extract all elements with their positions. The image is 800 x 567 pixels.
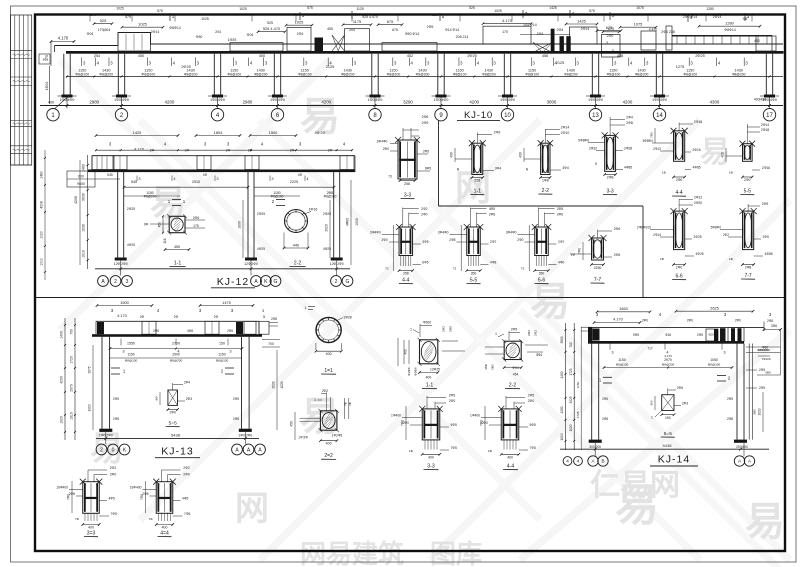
svg-text:Φ8@100: Φ8@100 (525, 72, 539, 76)
svg-text:12Φ25: 12Φ25 (430, 368, 440, 372)
svg-text:7Φ5: 7Φ5 (184, 512, 190, 516)
svg-text:2Φ14: 2Φ14 (713, 15, 722, 19)
frame KJ-10 beam main thick line (66, 51, 784, 54)
svg-text:400: 400 (326, 352, 332, 356)
svg-text:Φ8Φ14: Φ8Φ14 (169, 26, 180, 30)
svg-text:2Φ6: 2Φ6 (193, 216, 200, 220)
svg-text:7Φ0: 7Φ0 (140, 494, 144, 500)
KJ-10 column at grid 4 (213, 54, 215, 95)
svg-text:4Φ0: 4Φ0 (558, 261, 564, 265)
svg-text:2Φ4: 2Φ4 (557, 28, 564, 32)
svg-text:525: 525 (100, 18, 107, 23)
svg-text:1Φ 5Φ: 1Φ 5Φ (298, 436, 308, 440)
svg-text:2Φ6: 2Φ6 (614, 227, 621, 231)
svg-text:3: 3 (122, 349, 124, 354)
KJ-13 beam secondary boxes (97, 322, 104, 334)
svg-text:1010: 1010 (82, 250, 86, 258)
KJ-12 far-left dimension stack at border (44, 150, 46, 280)
svg-text:2125: 2125 (326, 65, 334, 69)
svg-text:2Φ8: 2Φ8 (489, 212, 495, 216)
KJ-13 right column side dims (262, 339, 280, 341)
KJ-14 beam left overhang (581, 326, 592, 328)
KJ-10 dark column stubs in beam (315, 38, 324, 52)
svg-text:3Φ0: 3Φ0 (753, 409, 757, 415)
svg-text:1075: 1075 (636, 6, 644, 10)
svg-text:KJ-14: KJ-14 (658, 454, 690, 466)
svg-text:Φ50 Φ14: Φ50 Φ14 (405, 32, 419, 36)
svg-text:Φ8@100: Φ8@100 (216, 359, 229, 363)
svg-text:网: 网 (235, 490, 269, 528)
svg-text:2Φ18: 2Φ18 (694, 120, 702, 124)
svg-text:450: 450 (138, 54, 144, 58)
svg-text:1425: 1425 (577, 18, 586, 23)
svg-text:4Φ8: 4Φ8 (187, 329, 193, 333)
partition line horizontal mid sheet (35, 297, 785, 299)
svg-text:1025: 1025 (494, 9, 502, 13)
svg-text:Φ8@100: Φ8@100 (125, 359, 138, 363)
svg-text:2: 2 (335, 279, 338, 285)
svg-text:9Φ: 9Φ (155, 396, 159, 401)
svg-text:525 4.470: 525 4.470 (362, 15, 378, 19)
svg-text:Φ14 Φ14: Φ14 Φ14 (445, 28, 459, 32)
svg-text:2Φ25: 2Φ25 (467, 54, 476, 58)
svg-text:3: 3 (262, 309, 264, 313)
svg-text:2Φ14: 2Φ14 (581, 27, 590, 31)
svg-text:5: 5 (263, 315, 265, 319)
svg-text:1720: 1720 (70, 356, 74, 364)
svg-text:525: 525 (432, 13, 438, 17)
svg-text:5438: 5438 (171, 433, 181, 438)
svg-text:4.470: 4.470 (649, 28, 658, 32)
svg-text:575: 575 (157, 9, 163, 13)
svg-text:17: 17 (766, 113, 773, 119)
KJ-13 top dimension row (97, 305, 152, 307)
KJ-12 beam left overhang hatch (92, 156, 114, 170)
svg-text:575: 575 (307, 6, 313, 10)
svg-text:3: 3 (271, 176, 273, 181)
svg-text:440: 440 (293, 243, 299, 247)
svg-text:2Φ2: 2Φ2 (110, 466, 117, 470)
KJ-12 left outer dimension stack (87, 155, 89, 269)
svg-text:1025: 1025 (201, 17, 209, 21)
svg-text:2Φ2: 2Φ2 (421, 207, 427, 211)
svg-text:G: G (274, 279, 278, 285)
svg-text:300: 300 (650, 400, 654, 405)
section 3-3 in detail box (605, 135, 616, 171)
svg-text:6Φ5: 6Φ5 (422, 261, 428, 265)
svg-text:2Φ14: 2Φ14 (761, 123, 769, 127)
svg-text:7Φ: 7Φ (348, 401, 352, 406)
svg-text:3225: 3225 (569, 396, 573, 403)
KJ-12 top dimension row (96, 135, 178, 137)
svg-text:73: 73 (388, 174, 392, 178)
svg-text:2Φ0: 2Φ0 (421, 212, 427, 216)
KJ-14 columns (591, 344, 593, 440)
frame KJ-13 beam (96, 320, 259, 322)
svg-text:易: 易 (530, 280, 570, 324)
svg-text:2Φ14: 2Φ14 (653, 233, 661, 237)
svg-text:Φ8@100: Φ8@100 (387, 72, 401, 76)
svg-text:1653: 1653 (619, 306, 628, 311)
svg-text:2Φ5: 2Φ5 (697, 333, 703, 337)
svg-text:2Φ9: 2Φ9 (422, 121, 429, 125)
svg-text:150: 150 (219, 342, 225, 346)
partition line vertical right of section rows (642, 206, 644, 298)
svg-text:9Φ5: 9Φ5 (633, 333, 639, 337)
section 4-4 row2 (399, 227, 413, 256)
KJ-14 left outer dimension stacks (565, 323, 567, 450)
svg-text:1Φ: 1Φ (729, 171, 734, 175)
svg-text:2Φ25: 2Φ25 (695, 54, 704, 58)
svg-text:1010: 1010 (40, 258, 44, 266)
svg-text:675: 675 (387, 19, 394, 24)
svg-text:204 Φ14: 204 Φ14 (523, 23, 537, 27)
svg-text:Φ20: Φ20 (708, 333, 714, 337)
svg-text:2Φ4: 2Φ4 (626, 116, 633, 120)
svg-text:2Φ8: 2Φ8 (602, 417, 608, 421)
svg-text:Φ8@100: Φ8@100 (607, 72, 621, 76)
section 5-5 right column (743, 144, 753, 162)
KJ-14 section cut marks (603, 376, 612, 378)
svg-text:10: 10 (504, 113, 511, 119)
svg-text:2Φ0: 2Φ0 (676, 266, 683, 270)
svg-text:Φ8@200: Φ8@200 (99, 72, 113, 76)
svg-text:7Φ5: 7Φ5 (451, 446, 457, 450)
svg-text:Φ8@200: Φ8@200 (416, 72, 430, 76)
svg-text:2070: 2070 (70, 384, 74, 392)
svg-text:1804: 1804 (214, 130, 223, 135)
svg-text:Φ54: Φ54 (512, 366, 519, 370)
svg-text:1Φ04: 1Φ04 (45, 82, 49, 91)
svg-text:1Φ400: 1Φ400 (391, 414, 401, 418)
svg-text:2Φ8: 2Φ8 (449, 238, 455, 242)
svg-text:5-5: 5-5 (744, 189, 751, 195)
svg-text:1150: 1150 (576, 381, 580, 388)
svg-text:1010: 1010 (70, 412, 74, 420)
svg-text:3: 3 (229, 349, 231, 354)
svg-text:2Φ0: 2Φ0 (383, 147, 389, 151)
svg-text:400: 400 (428, 455, 434, 459)
svg-text:2Φ0: 2Φ0 (381, 238, 387, 242)
svg-text:4300: 4300 (710, 100, 720, 105)
svg-text:3600: 3600 (560, 336, 564, 343)
svg-text:3: 3 (606, 41, 608, 45)
KJ-13 mid span dimension line (110, 348, 242, 350)
svg-text:3Φ4Φ0: 3Φ4Φ0 (438, 231, 449, 235)
svg-text:1550: 1550 (127, 342, 135, 346)
KJ-10 column at grid 13 (591, 54, 593, 95)
svg-text:1020: 1020 (280, 381, 284, 388)
svg-text:73: 73 (453, 266, 457, 270)
svg-text:4.170: 4.170 (117, 314, 127, 318)
svg-text:2Φ5: 2Φ5 (759, 386, 765, 390)
KJ-10 haunch cross hatch (332, 35, 345, 51)
svg-text:350: 350 (471, 272, 477, 276)
svg-text:1175: 1175 (353, 19, 361, 24)
svg-text:400: 400 (88, 526, 94, 530)
svg-text:400: 400 (259, 54, 265, 58)
svg-text:3: 3 (126, 279, 129, 285)
svg-text:1150: 1150 (127, 352, 134, 356)
svg-text:Φ300: Φ300 (423, 320, 431, 324)
svg-text:1280: 1280 (725, 21, 734, 26)
svg-text:7Φ5: 7Φ5 (530, 446, 536, 450)
svg-text:400: 400 (519, 152, 523, 158)
svg-text:3-3: 3-3 (404, 193, 411, 199)
svg-text:2Φ12: 2Φ12 (653, 147, 661, 151)
svg-text:7-7: 7-7 (594, 277, 601, 283)
svg-text:2Φ3: 2Φ3 (682, 402, 688, 406)
svg-text:2Φ9: 2Φ9 (494, 131, 501, 135)
svg-text:±0: ±0 (43, 58, 47, 62)
svg-text:8: 8 (595, 162, 597, 166)
svg-text:Φ8@200: Φ8@200 (732, 72, 746, 76)
KJ-14 grid bubbles (563, 457, 572, 466)
svg-text:3-3: 3-3 (606, 189, 613, 195)
svg-text:254: 254 (94, 54, 100, 58)
bottom-left section 4-4 (156, 482, 173, 514)
svg-text:Φ2Φ8: Φ2Φ8 (407, 367, 411, 375)
svg-text:1=1: 1=1 (324, 368, 333, 374)
svg-text:2Φ0: 2Φ0 (607, 34, 614, 38)
section 2-2 in detail box (541, 143, 550, 174)
svg-text:Φ8@200: Φ8@200 (144, 195, 157, 199)
svg-text:1050: 1050 (710, 358, 718, 362)
svg-text:2-2: 2-2 (509, 383, 517, 389)
svg-text:675: 675 (606, 25, 613, 30)
svg-text:2Φ5: 2Φ5 (427, 25, 434, 29)
detail square 2-2 right of KJ-13 (320, 411, 337, 430)
svg-text:网: 网 (455, 167, 491, 208)
svg-text:200|400: 200|400 (736, 445, 748, 449)
svg-text:2Φ2: 2Φ2 (491, 364, 495, 370)
svg-text:1-1: 1-1 (426, 383, 434, 389)
svg-text:1: 1 (651, 416, 653, 420)
svg-text:2Φ5: 2Φ5 (227, 329, 233, 333)
svg-text:Φ8@100: Φ8@100 (453, 72, 467, 76)
svg-text:2: 2 (114, 279, 117, 285)
svg-text:Φ8@100: Φ8@100 (298, 72, 312, 76)
svg-text:4Φ25: 4Φ25 (257, 247, 265, 251)
svg-text:4Φ85: 4Φ85 (765, 252, 773, 256)
svg-text:1: 1 (314, 398, 316, 402)
svg-text:545: 545 (131, 180, 137, 184)
svg-text:258: 258 (403, 272, 409, 276)
section 5-5 row2 (467, 227, 481, 256)
svg-text:3-3: 3-3 (427, 464, 435, 470)
svg-text:Φ8@100: Φ8@100 (616, 362, 629, 366)
svg-text:Φ8@100: Φ8@100 (324, 195, 337, 199)
svg-text:2Φ14: 2Φ14 (151, 30, 160, 34)
detail circle 1-1 right of KJ-13 (316, 317, 341, 342)
svg-text:208 214: 208 214 (456, 35, 469, 39)
svg-text:170: 170 (502, 30, 508, 34)
svg-text:525 4.470: 525 4.470 (263, 26, 281, 31)
svg-text:易: 易 (700, 136, 730, 169)
KJ-10 stirrup bay annotations (81, 58, 83, 67)
svg-text:45Φ: 45Φ (484, 364, 488, 370)
KJ-14 top dimension row (597, 311, 650, 313)
KJ-12 beam secondary boxes (113, 156, 127, 170)
svg-text:4Φ85: 4Φ85 (346, 218, 350, 226)
svg-text:2980: 2980 (89, 100, 99, 105)
svg-text:2Φ5: 2Φ5 (762, 202, 769, 206)
svg-text:350: 350 (539, 272, 545, 276)
svg-text:4.170: 4.170 (502, 18, 513, 23)
svg-text:2Φ25: 2Φ25 (127, 207, 135, 211)
svg-text:2Φ2: 2Φ2 (442, 326, 446, 332)
svg-text:4200: 4200 (623, 100, 633, 105)
svg-text:2Φ8: 2Φ8 (607, 176, 614, 180)
svg-text:4Φ5: 4Φ5 (109, 497, 115, 501)
svg-text:4-4: 4-4 (507, 464, 515, 470)
svg-text:7Φ0: 7Φ0 (578, 248, 582, 254)
svg-text:1150: 1150 (618, 358, 626, 362)
svg-text:3: 3 (216, 176, 218, 181)
svg-text:Φ8@200: Φ8@200 (564, 72, 578, 76)
svg-text:2Φ6: 2Φ6 (614, 253, 621, 257)
svg-text:1: 1 (495, 332, 497, 336)
svg-text:4Φ5: 4Φ5 (489, 207, 495, 211)
svg-text:116: 116 (163, 238, 167, 243)
KJ-10 parapet band right portion (672, 35, 772, 37)
svg-text:4: 4 (577, 459, 580, 464)
svg-text:1075: 1075 (634, 22, 643, 27)
svg-text:700: 700 (70, 329, 74, 335)
svg-text:7Φ: 7Φ (344, 401, 348, 406)
svg-text:2: 2 (100, 447, 103, 453)
section 6-6 row2 (535, 227, 549, 256)
svg-text:4200: 4200 (60, 376, 64, 384)
svg-text:Φ8@200: Φ8@200 (184, 72, 198, 76)
svg-text:4Φ85: 4Φ85 (693, 166, 701, 170)
svg-text:2075: 2075 (88, 366, 92, 373)
svg-text:400: 400 (507, 455, 513, 459)
svg-text:3000: 3000 (547, 100, 557, 105)
svg-text:1Φ: 1Φ (662, 171, 667, 175)
svg-text:2Φ0: 2Φ0 (528, 399, 535, 403)
KJ-10 column at grid 17 (765, 54, 767, 95)
partition line vertical left of detail box (438, 121, 440, 206)
KJ-14 beam right overhang dims (763, 322, 765, 332)
svg-text:4200: 4200 (560, 406, 564, 413)
svg-text:Φ8@200: Φ8@200 (170, 359, 183, 363)
svg-text:2Φ0: 2Φ0 (642, 318, 648, 322)
svg-text:2Φ8: 2Φ8 (767, 319, 773, 323)
svg-text:4.170: 4.170 (58, 36, 69, 41)
svg-text:204: 204 (215, 30, 221, 34)
KJ-10 beam top outline (55, 45, 119, 47)
KJ-13 beam right overhang (259, 321, 269, 334)
mid-bottom section 4-4 (501, 409, 519, 440)
svg-text:2Φ12: 2Φ12 (694, 196, 702, 200)
KJ-13 section 5-5 detail (168, 390, 178, 405)
svg-text:19Φ400: 19Φ400 (56, 486, 68, 490)
svg-text:3Φ4Φ0: 3Φ4Φ0 (370, 231, 381, 235)
title strip (11, 15, 32, 165)
svg-text:4Φ: 4Φ (203, 173, 208, 177)
svg-text:3Φ6: 3Φ6 (771, 324, 777, 328)
svg-text:1Φ2Φ5: 1Φ2Φ5 (332, 434, 343, 438)
KJ-10 top dimension rows (94, 23, 112, 25)
svg-text:1275: 1275 (676, 65, 684, 69)
svg-text:Φ8@200: Φ8@200 (482, 72, 496, 76)
svg-text:4.170: 4.170 (134, 147, 145, 152)
svg-text:1150: 1150 (218, 352, 225, 356)
svg-text:3Φ4Φ0: 3Φ4Φ0 (506, 231, 517, 235)
svg-text:2Φ7: 2Φ7 (490, 240, 496, 244)
svg-text:4-4: 4-4 (402, 278, 409, 284)
svg-text:2Φ8: 2Φ8 (557, 207, 563, 211)
svg-text:400: 400 (450, 152, 454, 158)
svg-text:450: 450 (174, 245, 180, 249)
svg-text:4: 4 (566, 459, 569, 464)
svg-text:1425: 1425 (549, 6, 557, 10)
KJ-10 column at grid 10 (503, 54, 505, 95)
svg-text:2Φ0: 2Φ0 (735, 318, 741, 322)
svg-text:Φ8@100: Φ8@100 (142, 72, 156, 76)
mid-bottom section 3-3 (422, 409, 440, 440)
svg-text:2Φ6: 2Φ6 (677, 386, 683, 390)
svg-text:2Φ16: 2Φ16 (762, 166, 770, 170)
svg-text:2Φ7: 2Φ7 (558, 240, 564, 244)
KJ-10 column at grid 14 (655, 54, 657, 95)
partition line below detail box (439, 205, 644, 207)
svg-text:3Φ4: 3Φ4 (495, 167, 502, 171)
svg-text:7Φ: 7Φ (148, 517, 153, 521)
svg-text:2Φ4 238: 2Φ4 238 (661, 30, 675, 34)
svg-text:1025: 1025 (116, 7, 124, 11)
svg-text:4Φ5: 4Φ5 (182, 497, 188, 501)
svg-text:400|450: 400|450 (754, 98, 766, 102)
svg-text:7Φ0: 7Φ0 (67, 494, 71, 500)
svg-text:2Φ: 2Φ (214, 315, 219, 319)
svg-text:1Φ: 1Φ (660, 257, 665, 261)
svg-text:1: 1 (304, 306, 306, 310)
svg-text:2Φ25: 2Φ25 (181, 65, 190, 69)
svg-text:73: 73 (385, 266, 389, 270)
svg-text:2Φ5: 2Φ5 (153, 329, 159, 333)
section 4-4 right column (674, 131, 685, 162)
svg-text:3290: 3290 (403, 100, 413, 105)
KJ-12 mid span dimension line (124, 186, 248, 188)
svg-text:5Φ5: 5Φ5 (530, 423, 536, 427)
svg-text:4Φ8: 4Φ8 (490, 261, 496, 265)
svg-text:2Φ20: 2Φ20 (694, 201, 702, 205)
svg-text:2Φ8: 2Φ8 (113, 417, 119, 421)
svg-text:3Φ5: 3Φ5 (422, 240, 428, 244)
KJ-12 section cut mark 2 (276, 199, 285, 201)
svg-text:4Φ: 4Φ (298, 173, 303, 177)
svg-text:4Φ25: 4Φ25 (696, 252, 704, 256)
section 7-7 row2 (592, 238, 604, 260)
KJ-10 column at grid 2 (117, 54, 119, 95)
watermark glyphs (90, 95, 785, 567)
svg-text:717: 717 (647, 347, 653, 351)
svg-text:2625: 2625 (710, 306, 719, 311)
KJ-12 columns (117, 172, 119, 257)
svg-text:1500: 1500 (120, 300, 129, 305)
svg-text:2Φ0: 2Φ0 (449, 399, 456, 403)
svg-text:2Φ2: 2Φ2 (183, 466, 190, 470)
svg-text:2Φ4: 2Φ4 (184, 381, 190, 385)
svg-text:450: 450 (290, 421, 294, 427)
svg-text:2Φ0: 2Φ0 (517, 238, 523, 242)
svg-text:2Φ8: 2Φ8 (745, 266, 752, 270)
svg-text:5Φ8Φ0: 5Φ8Φ0 (643, 139, 654, 143)
svg-text:KJ-12: KJ-12 (217, 276, 249, 288)
svg-text:6-6: 6-6 (538, 278, 545, 284)
